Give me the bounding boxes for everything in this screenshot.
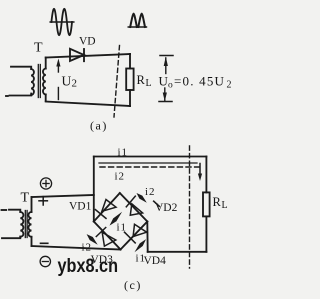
diode VD1 (fig c) [95,200,116,219]
sine waveform symbol [50,9,74,35]
svg-text:o: o [168,81,173,91]
svg-text:i: i [145,186,148,198]
svg-text:=0. 45U: =0. 45U [174,74,225,89]
diode VD4 (fig c) [125,224,147,243]
diode VD3 (fig c) [96,228,116,247]
half-wave waveform symbol [128,14,146,27]
minus sign above bottom wire (fig c) [41,242,48,244]
bridge edge L-T (fig c) [94,193,120,222]
label RL (fig a) [137,73,152,89]
current arrow i1 lower right (fig c) [135,239,147,252]
svg-text:i: i [117,222,120,234]
bottom right wire to RL (fig c) [148,251,207,253]
svg-text:VD2: VD2 [155,202,178,214]
transformer core (fig a) [38,65,40,98]
svg-text:i: i [115,171,118,183]
svg-text:VD: VD [79,36,96,48]
label i2 under dashed line (fig c) [115,171,125,183]
label U2 (fig a) [62,74,78,90]
svg-text:VD4: VD4 [144,255,167,267]
current arrow i1 middle (fig c) [110,212,123,226]
circled plus terminal (fig c) [40,178,51,189]
svg-text:i: i [136,253,139,265]
svg-text:2: 2 [227,80,232,91]
svg-text:2: 2 [72,78,78,90]
svg-text:ybx8.cn: ybx8.cn [58,256,119,277]
current arrow i2 upper right (fig c) [137,193,147,203]
svg-text:1: 1 [121,222,127,234]
transformer secondary (fig c) [28,197,31,246]
diode VD (fig a) [70,49,84,61]
svg-text:i: i [82,242,85,254]
svg-text:(a): (a) [90,119,108,133]
label i2 lower left (fig c) [82,242,92,254]
transformer primary (fig c) [2,210,24,239]
label i1 middle (fig c) [117,222,127,234]
label i1 top (fig c) [118,147,128,159]
current arrow i2 lower left (fig c) [87,234,98,245]
svg-text:2: 2 [149,186,155,198]
label i2 upper right (fig c) [145,186,159,206]
label i1 lower right (fig c) [136,253,146,265]
dashed current path i2 (fig c) [100,166,201,168]
svg-text:2: 2 [86,242,92,254]
svg-text:1: 1 [140,253,146,265]
left vertical wire (fig c) [93,157,95,222]
bottom wire from - terminal (fig c) [32,246,121,250]
wire from + terminal to bridge (fig c) [32,195,94,197]
svg-text:2: 2 [119,171,125,183]
top wire (fig a) [46,54,130,58]
transformer secondary (fig a) [43,58,46,102]
circled minus terminal (fig c) [40,256,50,266]
svg-text:L: L [146,78,152,89]
label Uo=0.45U2 (fig a) [159,74,232,91]
bridge edge B-R (fig c) [121,222,148,250]
second output line (fig c) [99,162,197,164]
transformer primary (fig a) [6,67,34,96]
Uo measurement arrow (fig a) [159,56,173,102]
top output wire i1 (fig c) [94,156,207,158]
right corner vertical wire (fig c) [146,222,148,252]
diode VD2 (fig c) [126,196,142,215]
svg-text:R: R [213,195,222,209]
svg-text:R: R [137,73,146,87]
svg-text:L: L [222,200,228,211]
plus sign below wire (fig c) [39,197,47,205]
resistor RL (fig c) [203,157,210,252]
svg-text:T: T [34,41,43,56]
svg-text:U: U [62,74,72,89]
bottom wire (fig a) [46,102,130,107]
svg-text:(c): (c) [124,278,142,292]
bridge edge T-R (fig c) [120,193,148,222]
dashed boundary line (fig c) [189,146,191,268]
svg-text:T: T [21,191,30,206]
resistor RL (fig a) [126,54,133,106]
svg-text:U: U [159,74,169,89]
i2 path down arrow (fig c) [198,164,202,182]
svg-text:VD1: VD1 [69,201,92,213]
U2 voltage arrow (fig a) [56,59,60,100]
dashed boundary line (fig a) [114,46,120,118]
transformer core (fig c) [25,211,27,238]
label RL (fig c) [213,195,228,211]
bridge edge L-B (fig c) [94,222,121,250]
